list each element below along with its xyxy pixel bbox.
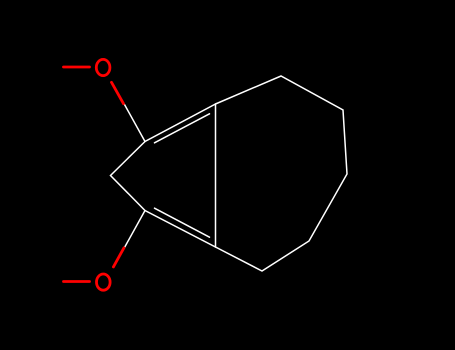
bond C1-O(top) carbon half bbox=[125, 105, 146, 142]
atom O top methoxy bbox=[96, 59, 110, 75]
atom O bottom methoxy bbox=[97, 274, 111, 290]
bond CH3-O top methoxy bbox=[64, 66, 90, 69]
bond C3-O(bottom) carbon half bbox=[125, 211, 146, 248]
bond CH3-O bottom methoxy bbox=[64, 280, 90, 283]
double bond tick C1=C9a bbox=[155, 114, 210, 143]
bond O-C1 oxygen half (red) bbox=[112, 82, 124, 103]
five-membered ring C1-C2-C3-C3a-C9a bbox=[111, 104, 216, 247]
seven-membered ring C9a-C4-C5-C6-C7-C8-C3a bbox=[216, 76, 348, 271]
bond O-C3 oxygen half (red) bbox=[113, 248, 124, 267]
double bond tick C3=C3a bbox=[155, 208, 210, 237]
